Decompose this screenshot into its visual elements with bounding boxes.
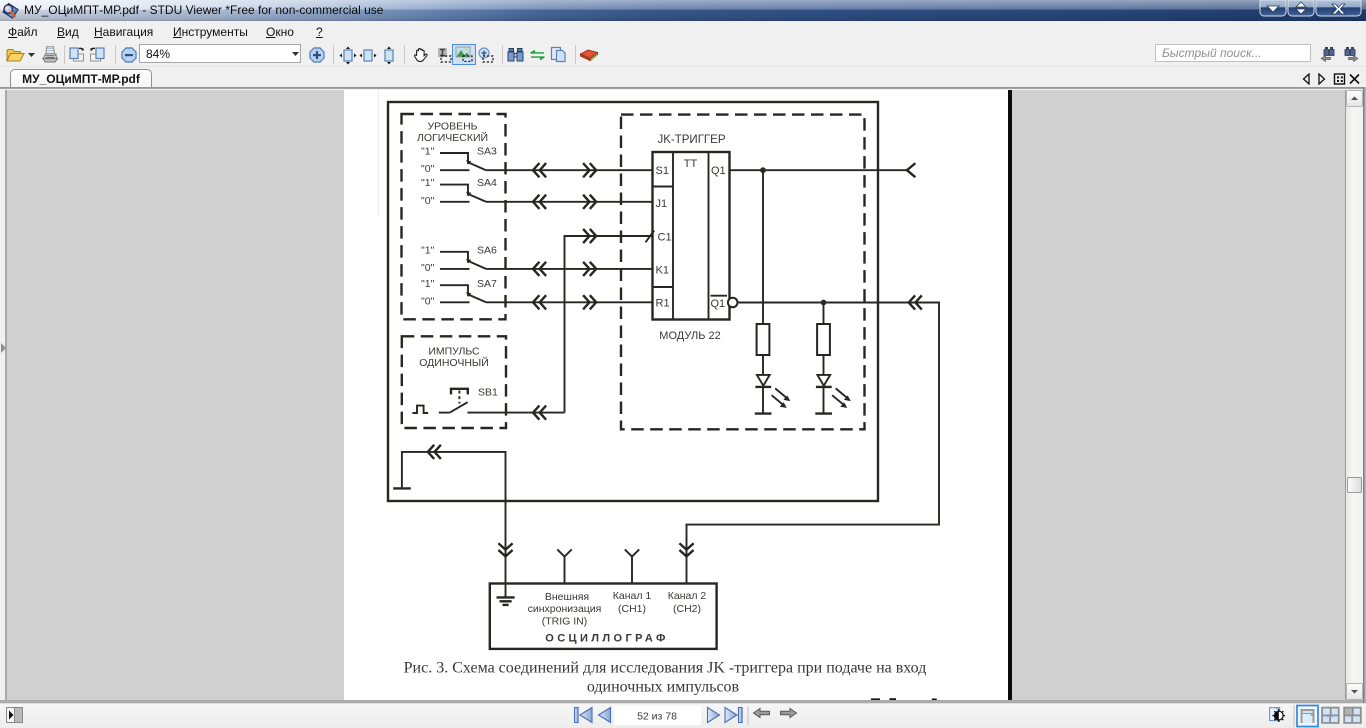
find next bbox=[1342, 46, 1359, 62]
wire Q1-bar net bbox=[687, 303, 940, 584]
svg-text:SA4: SA4 bbox=[477, 177, 497, 189]
JK flip-flop U1 bbox=[646, 152, 738, 320]
sidebar arrow bbox=[0, 342, 7, 354]
swap arrows bbox=[530, 49, 545, 61]
app icon bbox=[2, 2, 20, 20]
svg-text:SB1: SB1 bbox=[478, 386, 498, 398]
svg-text:SA3: SA3 bbox=[477, 146, 497, 158]
printer bbox=[41, 45, 59, 65]
switch SA7 bbox=[421, 278, 497, 308]
svg-text:УРОВЕНЬ: УРОВЕНЬ bbox=[427, 120, 477, 132]
svg-text:R1: R1 bbox=[656, 298, 670, 310]
scope labels bbox=[528, 590, 707, 627]
rotate cw bbox=[69, 46, 86, 63]
text select bbox=[437, 47, 452, 63]
image select (active) bbox=[452, 44, 476, 65]
status bar bbox=[0, 704, 1366, 728]
svg-text:одиночных импульсов: одиночных импульсов bbox=[587, 679, 740, 696]
fit width bbox=[359, 46, 377, 65]
window buttons bbox=[1259, 0, 1363, 18]
statusbar right icons bbox=[1266, 704, 1364, 728]
connector pair on R1 wire bbox=[533, 296, 545, 308]
TRIG IN input connector bbox=[557, 549, 571, 583]
hand tool bbox=[412, 46, 429, 63]
red book bbox=[579, 48, 599, 63]
svg-text:K1: K1 bbox=[656, 265, 669, 277]
svg-text:синхронизация: синхронизация bbox=[528, 603, 602, 615]
connector pair on K1 wire bbox=[533, 263, 545, 275]
fit page bbox=[339, 46, 357, 65]
node Q1-bar junction bbox=[821, 300, 827, 306]
LED VD1 bbox=[756, 355, 790, 414]
copy bbox=[550, 46, 567, 63]
wire J1 net bbox=[486, 201, 653, 203]
common terminal bar bbox=[394, 487, 409, 489]
zoom in octagon bbox=[309, 47, 325, 63]
zoom out octagon bbox=[121, 47, 137, 63]
resistor R1 bbox=[757, 170, 770, 355]
svg-text:"1": "1" bbox=[421, 177, 435, 189]
connector on SB1 wire bbox=[533, 406, 545, 418]
svg-text:Q1: Q1 bbox=[711, 165, 726, 177]
svg-text:C1: C1 bbox=[658, 232, 672, 244]
binoculars bbox=[507, 46, 524, 63]
svg-text:"1": "1" bbox=[421, 278, 435, 290]
CH1 input connector bbox=[625, 549, 639, 583]
svg-text:МОДУЛЬ 22: МОДУЛЬ 22 bbox=[659, 330, 720, 342]
wire R1 net bbox=[486, 301, 653, 303]
oscilloscope box bbox=[490, 584, 717, 649]
clipped next-table heading fragment bbox=[871, 698, 937, 700]
wire SB1 output bbox=[467, 412, 564, 414]
svg-text:Канал 2: Канал 2 bbox=[668, 590, 707, 602]
svg-text:(CH1): (CH1) bbox=[618, 603, 646, 615]
svg-text:SA7: SA7 bbox=[477, 278, 497, 290]
svg-text:(CH2): (CH2) bbox=[673, 603, 701, 615]
svg-text:S1: S1 bbox=[656, 165, 669, 177]
wire common to TRIG ground bbox=[402, 452, 506, 584]
connector on scope ground drop bbox=[499, 544, 511, 556]
page nav bbox=[571, 705, 801, 726]
menu bar bbox=[0, 21, 1366, 43]
quick search bbox=[1155, 44, 1311, 63]
connector on C1 wire bbox=[584, 230, 596, 242]
wire Q1 net bbox=[730, 169, 908, 171]
toolbar bbox=[0, 43, 1366, 66]
node Q1 junction bbox=[760, 167, 766, 173]
connector on CH2 drop wire bbox=[680, 544, 692, 556]
svg-text:Рис. 3. Схема соединений для и: Рис. 3. Схема соединений для исследовани… bbox=[404, 659, 927, 676]
pulse symbol bbox=[412, 406, 428, 413]
svg-text:TT: TT bbox=[684, 158, 698, 170]
svg-text:"1": "1" bbox=[421, 146, 435, 158]
JK-trigger module box (JK-ТРИГГЕР) bbox=[621, 115, 865, 430]
doc area bbox=[0, 87, 1366, 89]
scan edge artifact bbox=[378, 90, 380, 215]
svg-text:JK-ТРИГГЕР: JK-ТРИГГЕР bbox=[657, 134, 725, 146]
svg-text:SA6: SA6 bbox=[477, 244, 497, 256]
svg-text:Канал 1: Канал 1 bbox=[613, 590, 652, 602]
connector pair on S1 wire bbox=[533, 164, 545, 176]
svg-text:(TRIG IN): (TRIG IN) bbox=[542, 615, 588, 627]
wire C1 net from SB1 riser bbox=[565, 236, 653, 413]
single pulse source box (ИМПУЛЬС ОДИНОЧНЫЙ) bbox=[402, 336, 506, 428]
scrollbar bbox=[1346, 90, 1363, 700]
connector pair on J1 wire bbox=[533, 196, 545, 208]
zoom combo bbox=[139, 44, 301, 63]
svg-text:ОДИНОЧНЫЙ: ОДИНОЧНЫЙ bbox=[419, 356, 489, 369]
ground symbol in scope bbox=[498, 584, 514, 605]
tab bar bbox=[0, 66, 1366, 89]
svg-text:J1: J1 bbox=[656, 198, 668, 210]
svg-text:"0": "0" bbox=[421, 262, 435, 274]
svg-text:ИМПУЛЬС: ИМПУЛЬС bbox=[428, 346, 480, 358]
LED VD2 bbox=[817, 355, 851, 414]
module outer box bbox=[388, 102, 878, 501]
svg-text:"0": "0" bbox=[421, 195, 435, 207]
svg-text:ОСЦИЛЛОГРАФ: ОСЦИЛЛОГРАФ bbox=[545, 632, 669, 644]
zoom select bbox=[478, 47, 494, 63]
push button SB1 bbox=[439, 386, 498, 412]
tabbar right controls bbox=[1302, 73, 1362, 85]
connector on Q1-bar wire bbox=[909, 296, 921, 308]
open folder bbox=[6, 48, 25, 62]
fit height bbox=[380, 46, 398, 65]
switch SA4 bbox=[421, 177, 497, 207]
svg-text:"1": "1" bbox=[421, 244, 435, 256]
svg-text:52 из 78: 52 из 78 bbox=[637, 711, 677, 723]
svg-text:"0": "0" bbox=[421, 295, 435, 307]
switch SA6 bbox=[421, 244, 497, 274]
figure caption bbox=[404, 659, 927, 695]
open connector at Q1 wire end bbox=[907, 164, 914, 176]
wire K1 net bbox=[486, 268, 653, 270]
resistor R2 bbox=[817, 303, 830, 356]
svg-text:"0": "0" bbox=[421, 163, 435, 175]
svg-text:Внешняя: Внешняя bbox=[545, 591, 589, 603]
rotate ccw bbox=[88, 46, 105, 63]
find prev bbox=[1320, 46, 1337, 62]
connector on common wire bbox=[428, 446, 440, 458]
switch SA3 bbox=[421, 146, 497, 176]
svg-text:ЛОГИЧЕСКИЙ: ЛОГИЧЕСКИЙ bbox=[417, 131, 488, 144]
statusbar left: sidebar button bbox=[6, 707, 23, 723]
wire S1 net bbox=[486, 169, 653, 171]
svg-text:Q1: Q1 bbox=[711, 298, 726, 310]
logic level source box (УРОВЕНЬ ЛОГИЧЕСКИЙ) bbox=[402, 114, 506, 319]
